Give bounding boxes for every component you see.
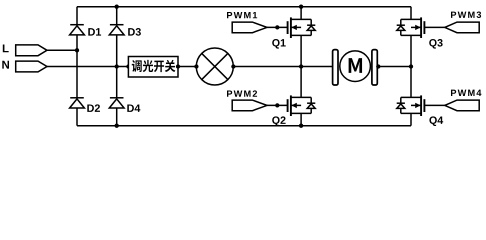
lamp — [196, 48, 233, 85]
port connector PWM3 — [445, 22, 479, 33]
wire: D2 anode to bottom rail — [76, 108, 78, 126]
port label PWM2 — [227, 90, 257, 96]
transistor label Q1 — [272, 39, 286, 49]
junction dot: L at D1/D2 node — [75, 48, 79, 52]
junction dot on Q2 gate wire — [275, 103, 279, 107]
wire: lamp to H-bridge left leg — [233, 66, 333, 68]
junction dot on Q1 gate wire — [275, 25, 279, 29]
wire: D3 anode through N node to D4 cathode — [116, 35, 118, 98]
junction dot: N at D3/D4 node — [115, 64, 119, 68]
junction dot: dimmer switch right terminal — [176, 64, 180, 68]
bottom rail (rectified - bus) — [77, 125, 411, 127]
port connector PWM1 — [232, 22, 267, 33]
junction dot: motor left terminal — [332, 64, 336, 68]
diode label D3 — [128, 28, 141, 36]
motor connector left — [333, 50, 338, 85]
junction dot: lamp right terminal — [231, 64, 235, 68]
diode label D4 — [127, 104, 140, 111]
wire: motor to H-bridge right leg — [378, 66, 412, 68]
port label N — [2, 61, 9, 69]
wire: N to dimmer switch — [47, 66, 128, 68]
wire: D1 cathode to top rail — [76, 7, 78, 25]
port connector L — [16, 45, 47, 56]
transistor Q3 gate wire — [424, 26, 444, 28]
diode D1 — [70, 25, 85, 35]
body diode of Q1 — [307, 19, 315, 35]
junction dot: Q1 drain on top rail — [299, 5, 303, 9]
transistor Q4 — [401, 67, 425, 126]
wire: D1 anode through L node to D2 cathode — [76, 35, 78, 98]
junction dot: D4 anode on bottom rail — [115, 124, 119, 128]
junction dot: H-bridge right midpoint — [409, 64, 413, 68]
diode label D1 — [88, 28, 101, 35]
transistor Q2 — [288, 67, 312, 126]
transistor label Q3 — [429, 39, 442, 49]
transistor label Q2 — [272, 116, 285, 126]
port label PWM4 — [451, 90, 481, 96]
diode label D2 — [87, 104, 100, 112]
motor M — [340, 51, 371, 82]
port connector N — [16, 61, 47, 72]
transistor Q1 gate wire — [267, 26, 288, 28]
body diode of Q4 — [397, 97, 405, 113]
junction dot: motor right terminal — [376, 64, 380, 68]
port label PWM3 — [451, 11, 481, 18]
transistor Q2 gate wire — [267, 104, 288, 106]
transistor Q4 gate wire — [424, 104, 444, 106]
junction dot: D3 cathode on top rail — [115, 5, 119, 9]
transistor Q3 — [401, 7, 425, 67]
body diode of Q2 — [307, 97, 315, 113]
junction dot: H-bridge left midpoint — [299, 64, 303, 68]
dimmer switch text 调光开关 — [132, 60, 176, 72]
port label PWM1 — [227, 12, 257, 18]
dimmer switch box — [128, 57, 178, 78]
diode D2 — [70, 98, 85, 108]
body diode of Q3 — [397, 19, 405, 35]
port label L — [3, 44, 9, 52]
transistor Q1 — [288, 7, 312, 67]
wire: dimmer switch to lamp — [178, 66, 196, 68]
port connector PWM2 — [232, 100, 267, 111]
wire: D3 cathode to top rail — [116, 7, 118, 25]
junction dot: lamp left terminal — [194, 64, 198, 68]
wire: D4 anode to bottom rail — [116, 108, 118, 126]
wire: L to D1/D2 node — [47, 49, 77, 51]
junction dot: dimmer switch left terminal — [126, 64, 130, 68]
port connector PWM4 — [445, 100, 479, 111]
top rail (rectified + bus) — [77, 6, 411, 8]
motor connector right — [372, 50, 377, 85]
diode D3 — [109, 25, 124, 35]
transistor label Q4 — [429, 116, 443, 126]
junction dot: Q2 source on bottom rail — [299, 124, 303, 128]
diode D4 — [109, 98, 124, 108]
